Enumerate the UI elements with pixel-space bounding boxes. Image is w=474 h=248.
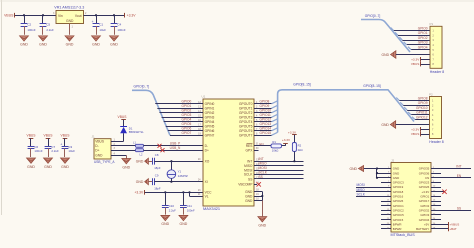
wire GPIO0 to U1 GPIN0 — [155, 101, 203, 104]
svg-text:GPIN4: GPIN4 — [205, 120, 215, 124]
wire GPIO2 to U1 GPIN2 — [159, 110, 203, 113]
net label GPIO11 — [260, 113, 272, 117]
svg-text:+3.3V: +3.3V — [288, 130, 297, 134]
net label GPIO4 — [182, 118, 192, 122]
wire J1 GND pin 4 to ground — [111, 152, 127, 158]
svg-text:GPIO0: GPIO0 — [182, 100, 192, 104]
svg-text:GPIO11: GPIO11 — [260, 113, 272, 117]
svg-text:GPIN3: GPIN3 — [205, 116, 215, 120]
ground GND at C1 — [92, 36, 101, 47]
power port +3.3V at R1 — [282, 138, 291, 144]
net label USB_P — [170, 142, 180, 146]
svg-text:BPWR: BPWR — [393, 227, 402, 231]
svg-text:GND: GND — [95, 154, 103, 158]
svg-text:GPIO14: GPIO14 — [260, 127, 272, 131]
bus net label GPIO[0..7] left — [134, 84, 150, 88]
net label SCLK — [259, 170, 268, 174]
ground GND at C6 — [27, 158, 36, 169]
svg-text:GPIO2: GPIO2 — [418, 36, 428, 40]
svg-text:GND: GND — [161, 222, 169, 226]
capacitor C5 2.2uF — [40, 15, 54, 35]
wire GPIO6 to U1 GPIN6 — [168, 128, 203, 131]
svg-text:Header 8: Header 8 — [430, 70, 444, 74]
svg-text:GPIN0: GPIN0 — [205, 102, 215, 106]
net label MOSI — [259, 166, 267, 170]
net label GPIO2 — [182, 109, 192, 113]
svg-text:MISO: MISO — [244, 164, 253, 168]
svg-text:GND: GND — [136, 160, 144, 164]
svg-text:GPIOC5: GPIOC5 — [393, 213, 404, 217]
svg-text:GPIO[8..15]: GPIO[8..15] — [293, 82, 310, 86]
wire MISO to J2 — [356, 191, 391, 193]
resistor R2 2k — [292, 135, 302, 161]
net label GPIO8 — [260, 100, 270, 104]
svg-text:MISO: MISO — [357, 188, 366, 192]
capacitor C10 2.2uF — [162, 192, 176, 214]
svg-text:J2: J2 — [391, 158, 395, 162]
svg-text:+3.3V: +3.3V — [134, 190, 144, 194]
svg-text:B5819W SL: B5819W SL — [129, 130, 144, 134]
svg-text:MOSI: MOSI — [244, 168, 252, 172]
net label GPIO1 — [182, 104, 192, 108]
svg-text:GPIN1: GPIN1 — [205, 107, 215, 111]
svg-text:GPIO[0..7]: GPIO[0..7] — [134, 84, 150, 88]
svg-text:18pF: 18pF — [154, 186, 161, 190]
power port VBUS at P2 pin 8 — [411, 132, 430, 137]
svg-text:VBUS: VBUS — [4, 14, 14, 18]
svg-text:GPIO3: GPIO3 — [420, 213, 429, 217]
svg-text:GPIO19: GPIO19 — [393, 185, 404, 189]
svg-text:100nF: 100nF — [187, 208, 195, 212]
power port +3.3V at P2 pin 7 — [411, 127, 429, 132]
svg-text:GPIO15: GPIO15 — [260, 131, 272, 135]
wire J2 GND pins 1-3 — [364, 167, 391, 179]
svg-text:GPIO4: GPIO4 — [418, 46, 428, 50]
wire GPIO12 to P2 pin 5 — [412, 117, 429, 120]
svg-text:GPIO10: GPIO10 — [416, 106, 428, 110]
capacitor C1 10uF polarized — [92, 15, 107, 35]
svg-text:GPIO32: GPIO32 — [419, 208, 430, 212]
svg-text:BATTERY: BATTERY — [416, 227, 429, 231]
bus net label GPIO[8..15] right segment — [363, 84, 380, 88]
regulator VR1 AMS1117-3.3 — [53, 5, 87, 28]
wire GPIO8 to P2 pin 1 — [396, 98, 429, 101]
svg-text:GND: GND — [245, 194, 253, 198]
connector P1 Header 8 — [430, 22, 445, 74]
svg-text:GPIO13: GPIO13 — [260, 122, 272, 126]
svg-text:VBUS: VBUS — [27, 134, 37, 138]
svg-text:C11: C11 — [187, 204, 192, 208]
ground GND at C5 — [39, 36, 48, 47]
ground GND at VR1 — [65, 36, 74, 47]
bus GPIO[8..15] from U1 GPOUT to header P2 — [278, 90, 414, 133]
net label GPIO10 — [260, 109, 272, 113]
svg-text:MTStack_BUS: MTStack_BUS — [391, 233, 416, 237]
svg-text:GND: GND — [66, 19, 74, 23]
svg-text:RES: RES — [246, 144, 254, 148]
svg-text:+3.3V: +3.3V — [127, 14, 137, 18]
wire GPIO10 to P2 pin 3 — [404, 107, 429, 110]
svg-text:C1: C1 — [99, 23, 103, 27]
svg-text:VBUS: VBUS — [118, 115, 128, 119]
wire U1 GPOUT1 to bus entry GPIO9 — [254, 105, 278, 108]
svg-text:Header 8: Header 8 — [429, 140, 443, 144]
wire GPIO5 to U1 GPIN5 — [166, 124, 203, 127]
wire U1 MISO — [254, 163, 304, 166]
net label GPIO3 — [182, 113, 192, 117]
wire U1 GPOUT6 to bus entry GPIO14 — [254, 128, 278, 131]
svg-text:GPIO3: GPIO3 — [182, 113, 192, 117]
svg-text:C9: C9 — [155, 174, 159, 178]
wire GPIO1 to U1 GPIN1 — [157, 106, 203, 109]
svg-text:J1: J1 — [92, 135, 96, 139]
svg-text:GPIO35: GPIO35 — [419, 167, 430, 171]
pin U1 VBCOMP stub with no-ERC marker — [254, 181, 261, 186]
svg-text:D-: D- — [95, 144, 98, 148]
wire U1 SS — [254, 176, 304, 179]
pin U1 GPX stub — [254, 147, 259, 151]
net label GPIO2 at P1 — [418, 36, 428, 40]
net label EN at J2 — [457, 174, 462, 178]
capacitor C6 100nF — [28, 138, 43, 157]
svg-text:VBCOMP: VBCOMP — [238, 183, 252, 187]
bus net label GPIO[0..7] at P1 — [365, 14, 381, 18]
net label GPIO0 at P1 — [418, 26, 428, 30]
svg-text:GPOUT5: GPOUT5 — [239, 125, 253, 129]
net label GPIO9 at P2 — [418, 101, 428, 105]
net label GPIO0 — [182, 100, 192, 104]
svg-text:D-: D- — [205, 144, 208, 148]
svg-text:GPIO26: GPIO26 — [419, 185, 430, 189]
wire GPIO4 to P1 pin 5 — [408, 47, 430, 50]
svg-text:GPOUT6: GPOUT6 — [239, 129, 253, 133]
wire GPIO4 to U1 GPIN4 — [164, 119, 203, 122]
svg-text:GND: GND — [27, 165, 35, 169]
power port VBUS at C3 — [61, 134, 71, 139]
svg-text:GPIO12: GPIO12 — [416, 116, 428, 120]
svg-text:R1: R1 — [272, 140, 276, 144]
svg-text:GPOUT3: GPOUT3 — [239, 116, 253, 120]
capacitor C2 100nF — [21, 15, 36, 35]
bus GPIO[0..7] to U1 GPIN — [132, 90, 170, 135]
svg-text:GPIOC2: GPIOC2 — [393, 208, 404, 212]
svg-text:VBUS: VBUS — [411, 62, 419, 66]
wire SS from J2 pin 20 — [431, 210, 471, 212]
svg-text:GPIN6: GPIN6 — [205, 129, 215, 133]
wire U1 SCLK — [254, 172, 304, 175]
svg-text:GND: GND — [92, 43, 100, 47]
ground GND at C7 — [44, 158, 53, 169]
net label GPIO9 — [260, 104, 270, 108]
svg-text:18pF: 18pF — [154, 166, 161, 170]
ground GND at P1 pin 6 — [382, 51, 430, 59]
wire U1 GPOUT0 to bus entry GPIO8 — [254, 101, 278, 104]
svg-text:GPIO2: GPIO2 — [420, 204, 429, 208]
net label GPIO7 — [182, 131, 192, 135]
wire U1 MOSI — [254, 167, 304, 170]
svg-text:+3.3V: +3.3V — [422, 190, 430, 194]
svg-text:GND: GND — [180, 222, 188, 226]
wire GPIO11 to P2 pin 4 — [408, 112, 429, 115]
svg-text:P1: P1 — [430, 22, 434, 26]
svg-text:GPOUT7: GPOUT7 — [239, 134, 253, 138]
svg-text:GPIN5: GPIN5 — [205, 125, 215, 129]
capacitor C9 18pF — [148, 174, 160, 191]
svg-text:USB_TYPE_A: USB_TYPE_A — [94, 160, 115, 164]
pin stubs J2 left with numbers — [381, 167, 391, 229]
net label GPIO1 at P1 — [418, 31, 428, 35]
ground GND at C9 — [136, 179, 149, 185]
wire SCLK to J2 — [356, 196, 391, 198]
svg-text:INT: INT — [247, 160, 252, 164]
net label GPIO4 at P1 — [418, 46, 428, 50]
wire to U1 VL — [190, 192, 204, 196]
svg-text:GPIO[8..15]: GPIO[8..15] — [363, 84, 380, 88]
svg-text:C10: C10 — [169, 204, 175, 208]
power port +3.3V at P1 pin 7 — [411, 57, 430, 62]
svg-text:GPIO10: GPIO10 — [260, 109, 272, 113]
net label MOSI — [357, 183, 365, 187]
svg-text:+VBUS: +VBUS — [449, 223, 459, 227]
wire J1 D+ pin 3 to bead L2 — [111, 147, 136, 150]
svg-text:Vin: Vin — [58, 14, 63, 18]
svg-text:EN: EN — [259, 142, 263, 146]
ground GND at C8 — [136, 158, 149, 164]
svg-text:CN: CN — [425, 176, 429, 180]
svg-text:10kΩ: 10kΩ — [272, 149, 279, 153]
svg-text:GPIO1: GPIO1 — [420, 195, 429, 199]
svg-text:VBUS: VBUS — [44, 134, 54, 138]
ground GND at C2 — [20, 36, 29, 47]
svg-text:GND: GND — [122, 165, 130, 169]
ground GND at C10 — [161, 215, 170, 226]
svg-text:GPIO5: GPIO5 — [182, 122, 192, 126]
svg-text:GPIO1: GPIO1 — [182, 104, 192, 108]
wire U1 GPOUT3 to bus entry GPIO11 — [254, 114, 278, 117]
svg-text:USB_N: USB_N — [170, 146, 181, 150]
svg-text:SCLK: SCLK — [357, 192, 366, 196]
pin stubs J2 right with numbers — [431, 167, 441, 229]
svg-text:GPIO3: GPIO3 — [418, 41, 428, 45]
wire GPIO7 to U1 GPIN7 — [170, 133, 203, 136]
svg-text:VR1 AMS1117-3.3: VR1 AMS1117-3.3 — [54, 5, 84, 9]
capacitor C8 18pF — [148, 153, 160, 170]
svg-text:C2: C2 — [27, 23, 31, 27]
net label GPIO12 at P2 — [416, 116, 428, 120]
svg-text:GND: GND — [39, 43, 47, 47]
svg-text:2.2uF: 2.2uF — [169, 208, 176, 212]
wire GPIO0 to P1 pin 1 — [391, 28, 430, 31]
net label GPIO10 at P2 — [416, 106, 428, 110]
net label GPIO6 — [182, 127, 192, 131]
svg-text:GPIO9: GPIO9 — [260, 104, 270, 108]
pin VR1 GND to ground — [69, 24, 71, 35]
wire U1 GND pins to ground — [254, 188, 263, 216]
wire J1 D- pin 2 to bead L1 — [111, 143, 136, 146]
capacitor C7 2.2uF — [45, 138, 59, 157]
svg-text:MAX3421: MAX3421 — [203, 206, 220, 211]
svg-text:GPIO15: GPIO15 — [393, 218, 404, 222]
wire USB_N to U1 D- — [144, 145, 204, 147]
svg-text:GND: GND — [381, 123, 389, 127]
svg-text:INT: INT — [259, 157, 264, 161]
wire U1 INT — [254, 159, 304, 163]
wire U1 RES to R1, net label EN — [254, 142, 271, 146]
ferrite bead L1 — [133, 140, 144, 147]
power port VBUS at C6 — [27, 134, 37, 139]
wire MOSI to J2 — [356, 187, 391, 189]
svg-text:GPIO34: GPIO34 — [419, 218, 430, 222]
svg-text:GND: GND — [382, 53, 390, 57]
svg-text:GPIO8: GPIO8 — [418, 96, 428, 100]
svg-text:SCLK: SCLK — [259, 170, 268, 174]
wire U1 GPOUT7 to bus entry GPIO15 — [254, 132, 278, 135]
wire C8 to U1 XO — [154, 158, 203, 162]
power port VBUS at P1 pin 8 — [411, 62, 430, 67]
svg-text:GND: GND — [245, 199, 253, 203]
svg-text:GPIO23: GPIO23 — [419, 181, 430, 185]
svg-text:VL: VL — [205, 195, 209, 199]
svg-text:GPOUT0: GPOUT0 — [239, 102, 253, 106]
capacitor C3 10uF polarized — [60, 138, 75, 157]
svg-text:GPOUT1: GPOUT1 — [239, 107, 253, 111]
svg-text:GND: GND — [245, 190, 253, 194]
power port VBUS at C7 — [44, 134, 54, 139]
net label GPIO13 — [260, 122, 272, 126]
svg-text:GPIO7: GPIO7 — [182, 131, 192, 135]
svg-text:GPIO1: GPIO1 — [418, 31, 428, 35]
svg-text:GPIO6: GPIO6 — [182, 127, 192, 131]
capacitor C4 100nF — [111, 15, 126, 35]
svg-text:D+: D+ — [95, 149, 99, 153]
svg-text:GPIO8: GPIO8 — [260, 100, 270, 104]
connector J2 MTStack_BUS — [391, 158, 432, 237]
svg-text:EN: EN — [457, 174, 462, 178]
svg-text:+3.3V: +3.3V — [411, 57, 420, 61]
ground GND at J1 — [122, 159, 131, 170]
ferrite bead L2 — [136, 149, 144, 157]
wire R1 to +3.3V — [282, 143, 286, 146]
svg-text:BPWR: BPWR — [393, 222, 402, 226]
ground GND at U1 — [258, 217, 267, 228]
svg-text:VBUS: VBUS — [95, 140, 104, 144]
net label GPIO15 — [260, 131, 272, 135]
op-amp U1 MAX3421 body — [202, 95, 255, 212]
svg-text:GPIN7: GPIN7 — [205, 134, 215, 138]
svg-text:VBUS: VBUS — [411, 132, 419, 136]
svg-text:GND: GND — [110, 43, 118, 47]
wire GPIO3 to P1 pin 4 — [404, 42, 430, 45]
bus GPIO[0..7] to header P1 — [361, 20, 410, 53]
svg-text:GND: GND — [393, 167, 399, 171]
wire C9 to U1 XI — [154, 178, 203, 182]
svg-text:GND: GND — [136, 180, 144, 184]
net label GPIO8 at P2 — [418, 96, 428, 100]
wire U1 GPOUT2 to bus entry GPIO10 — [254, 110, 278, 113]
svg-text:GND: GND — [393, 176, 399, 180]
svg-text:GPIO36: GPIO36 — [419, 171, 430, 175]
svg-text:Vout: Vout — [75, 14, 82, 18]
svg-text:GPIO26: GPIO26 — [393, 199, 404, 203]
wire J1 VBUS pin 1 to diode D1 — [111, 138, 124, 141]
svg-text:100nF: 100nF — [27, 28, 35, 32]
no-ERC marker on D- line — [158, 144, 162, 148]
net label GPIO11 at P2 — [416, 111, 428, 115]
ground GND at C3 — [61, 158, 70, 169]
svg-text:GPIOC1: GPIOC1 — [393, 204, 404, 208]
wire VBUS to VR1 Vin — [15, 14, 56, 16]
svg-text:GPIO4: GPIO4 — [182, 118, 192, 122]
resistor R1 10k — [271, 140, 282, 153]
capacitor C11 100nF — [180, 192, 195, 214]
net label GPIO3 at P1 — [418, 41, 428, 45]
wire GPIO9 to P2 pin 2 — [400, 102, 429, 105]
net label SS at J2 — [457, 206, 461, 210]
svg-text:SS: SS — [457, 206, 461, 210]
svg-text:+3.3V: +3.3V — [282, 138, 291, 142]
svg-text:GPIOC3: GPIOC3 — [393, 181, 404, 185]
crystal Y1 12MHZ — [167, 161, 188, 182]
ground GND at C11 — [179, 215, 188, 226]
svg-text:C4: C4 — [117, 23, 121, 27]
svg-text:2.2uF: 2.2uF — [51, 149, 59, 153]
pin J2 +3.3V stub with no-ERC marker — [431, 190, 447, 194]
svg-text:GPIO[0..7]: GPIO[0..7] — [365, 14, 381, 18]
svg-text:C5: C5 — [46, 23, 50, 27]
svg-text:GND: GND — [20, 43, 28, 47]
net label MISO — [259, 162, 268, 166]
no-ERC marker on D+ line — [161, 148, 165, 152]
wire U1 GPOUT4 to bus entry GPIO12 — [254, 119, 278, 122]
power port +3.3V at R2 — [288, 130, 297, 134]
svg-text:GPOUT4: GPOUT4 — [239, 120, 253, 124]
svg-text:GPIN2: GPIN2 — [205, 111, 215, 115]
net label SCLK — [357, 192, 366, 196]
svg-text:GPIO9: GPIO9 — [418, 101, 428, 105]
svg-text:GPIO17: GPIO17 — [419, 199, 430, 203]
svg-text:GPOUT2: GPOUT2 — [239, 111, 253, 115]
svg-text:SS: SS — [259, 175, 263, 179]
svg-text:GPIO2: GPIO2 — [182, 109, 192, 113]
svg-text:GND: GND — [44, 165, 52, 169]
svg-text:INT: INT — [456, 165, 461, 169]
wire +3.3V to U1 VCC — [145, 189, 203, 194]
bus net label GPIO[8..15] left segment — [293, 82, 310, 86]
svg-text:GND: GND — [258, 223, 266, 227]
svg-text:100nF: 100nF — [117, 28, 125, 32]
svg-text:VBUS: VBUS — [61, 134, 71, 138]
net label INT — [259, 157, 264, 161]
ground GND at C4 — [110, 36, 119, 47]
power port +3.3V (regulator output) — [125, 13, 137, 18]
power port +3.3V at U1 VCC — [134, 190, 144, 195]
svg-text:XO: XO — [205, 160, 210, 164]
ground GND at J2 — [349, 166, 363, 172]
wire VR1 Vout to +3.3V — [84, 14, 126, 16]
wire GPIO1 to P1 pin 2 — [395, 32, 430, 35]
svg-text:GPIO18: GPIO18 — [393, 190, 404, 194]
net label USB_N — [170, 146, 181, 150]
net label GPIO5 — [182, 122, 192, 126]
power port +BAT at J2 pin 28 — [431, 227, 457, 232]
svg-text:GPIO16: GPIO16 — [393, 195, 404, 199]
wire INT from J2 pin 2 — [431, 168, 471, 170]
svg-text:P2: P2 — [429, 92, 433, 96]
svg-text:GPIO0: GPIO0 — [418, 26, 428, 30]
power port VBUS (input rail) — [4, 13, 14, 18]
svg-text:GND: GND — [61, 165, 69, 169]
svg-text:SCLK: SCLK — [244, 173, 253, 177]
